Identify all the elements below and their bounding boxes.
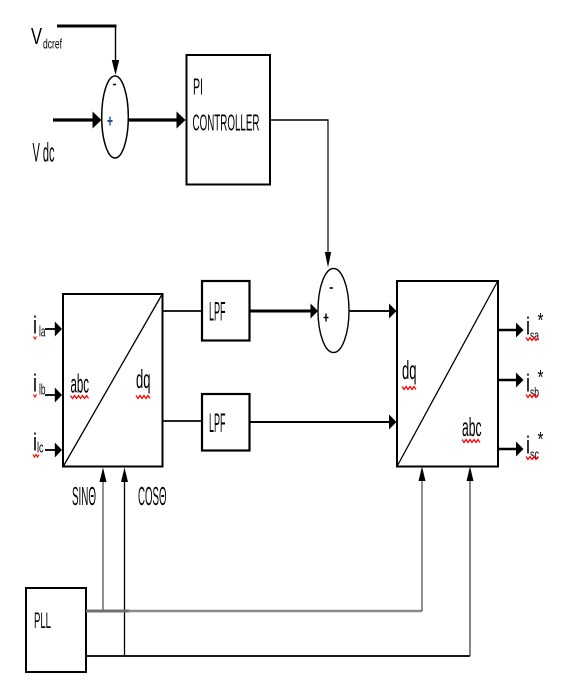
arrowhead into S1 top xyxy=(112,60,119,75)
svg-text:V dc: V dc xyxy=(33,138,55,168)
arrowhead output i_sb xyxy=(516,373,524,388)
arrowhead i_la into abc-dq block xyxy=(55,322,62,337)
svg-text:abc: abc xyxy=(71,369,90,399)
svg-text:i: i xyxy=(33,370,37,398)
block LPF1 xyxy=(202,281,250,341)
wire PI controller to summing junction S2 xyxy=(271,120,329,253)
wire i_lb input xyxy=(45,394,56,396)
summing junction S2 xyxy=(318,269,349,353)
arrowhead i_lc into abc-dq block xyxy=(55,443,62,458)
input label i_la xyxy=(33,312,46,341)
svg-text:i: i xyxy=(33,312,37,340)
wire V_dcref to summing junction S1 xyxy=(57,25,117,62)
arrowhead into S2 left xyxy=(311,304,319,319)
arrowhead i_lb into abc-dq block xyxy=(55,388,62,403)
svg-text:dq: dq xyxy=(402,355,417,385)
arrowhead COS theta into abc-dq bottom xyxy=(121,468,128,483)
block abc-to-dq transform xyxy=(63,294,163,467)
arrowhead PLL sin into dq-abc bottom xyxy=(419,467,426,482)
wire i_la input xyxy=(45,328,56,330)
summing junction S1 xyxy=(102,76,129,158)
svg-text:abc: abc xyxy=(462,412,482,442)
label V_dcref xyxy=(31,23,62,52)
wire S1 to PI controller xyxy=(128,118,178,121)
arrowhead output i_sa xyxy=(516,323,524,338)
arrowhead into PI controller xyxy=(177,112,186,129)
wire COS theta from PLL xyxy=(124,474,126,656)
svg-text:*: * xyxy=(538,310,544,332)
arrowhead PLL cos into dq-abc bottom xyxy=(467,467,474,482)
arrowhead output i_sc xyxy=(516,442,524,457)
wire V_dc input xyxy=(53,118,94,121)
arrowhead V_dc into S1 xyxy=(93,112,102,129)
wire output i_sa xyxy=(499,329,517,331)
block LPF2 xyxy=(202,394,250,451)
svg-text:LPF: LPF xyxy=(209,297,226,327)
arrowhead into S2 top xyxy=(325,252,331,268)
wire output i_sb xyxy=(499,379,517,381)
output label i_sb* xyxy=(526,367,544,400)
plus sign S1 xyxy=(108,117,113,126)
block PLL xyxy=(26,588,86,672)
wire abc-dq to LPF2 xyxy=(163,420,201,422)
svg-text:CONTROLLER: CONTROLLER xyxy=(193,110,260,136)
wire PLL sin output xyxy=(86,474,422,611)
minus sign S1 xyxy=(113,84,116,86)
arrowhead into dq-abc block d-axis xyxy=(389,304,397,319)
input label i_lb xyxy=(33,370,46,399)
svg-text:SINΘ: SINΘ xyxy=(72,481,96,511)
wire output i_sc xyxy=(499,448,517,450)
svg-text:dq: dq xyxy=(136,364,151,394)
svg-text:lb: lb xyxy=(39,382,46,399)
block dq-to-abc transform xyxy=(397,281,498,467)
arrowhead into dq-abc block q-axis xyxy=(389,415,397,430)
wire S2 to dq-abc block xyxy=(349,310,389,312)
plus sign S2 xyxy=(324,314,329,322)
arrowhead SIN theta into abc-dq bottom xyxy=(100,468,107,483)
wire LPF2 to dq-abc block xyxy=(250,421,389,423)
svg-text:LPF: LPF xyxy=(209,408,226,438)
svg-text:V: V xyxy=(31,23,42,49)
wire PLL cos output xyxy=(86,474,470,656)
svg-text:COSΘ: COSΘ xyxy=(138,481,167,511)
block PI controller U1 xyxy=(187,55,271,185)
svg-text:PI: PI xyxy=(193,74,203,100)
wire abc-dq to LPF1 xyxy=(163,310,201,312)
minus sign S2 xyxy=(330,287,334,289)
svg-text:la: la xyxy=(39,324,46,341)
wire SIN theta from PLL xyxy=(102,474,104,611)
wire i_lc input xyxy=(45,449,56,451)
input label i_lc xyxy=(33,429,44,458)
output label i_sc* xyxy=(526,429,544,462)
svg-text:*: * xyxy=(538,429,544,451)
output label i_sa* xyxy=(526,310,544,343)
svg-text:PLL: PLL xyxy=(34,608,51,633)
svg-text:*: * xyxy=(538,367,544,389)
svg-text:lc: lc xyxy=(37,440,44,457)
wire LPF1 to S2 xyxy=(250,310,311,313)
svg-text:dcref: dcref xyxy=(43,36,62,52)
